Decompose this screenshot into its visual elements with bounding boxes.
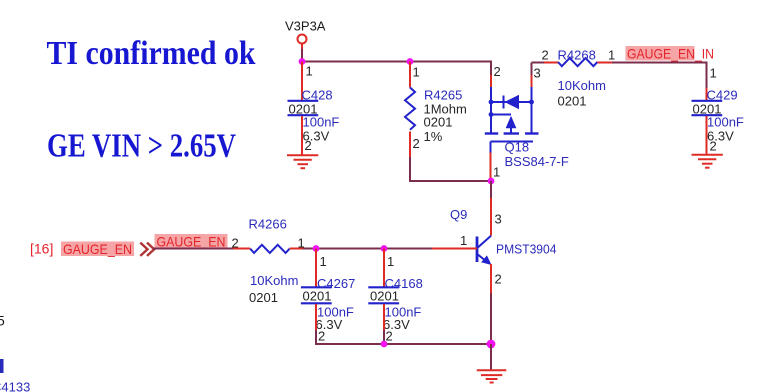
wire gate node to Q9 collector	[490, 181, 492, 200]
svg-text:C4133: C4133	[0, 380, 30, 392]
wire top rail	[302, 62, 491, 76]
node junction gate	[488, 178, 495, 185]
wire R4265 to gate node	[410, 157, 491, 181]
capacitor C429	[692, 66, 744, 155]
net label GAUGE_EN on wire	[155, 233, 228, 249]
svg-text:GAUGE_EN_IN: GAUGE_EN_IN	[627, 45, 714, 61]
node junction V3P3A	[299, 58, 306, 65]
node junction C4267 top	[313, 245, 320, 252]
svg-text:Q9: Q9	[450, 207, 467, 222]
ground under Q9	[477, 370, 507, 382]
port chevron	[140, 243, 154, 256]
wire R4268 to C429	[612, 63, 707, 89]
svg-text:1: 1	[460, 233, 467, 248]
wire GAUGE_EN to R4266	[153, 248, 233, 250]
svg-text:1: 1	[710, 66, 717, 81]
net label GAUGE_EN left	[61, 241, 134, 257]
svg-text:1: 1	[413, 65, 420, 80]
resistor R4265	[405, 62, 467, 158]
svg-text:BSS84-7-F: BSS84-7-F	[505, 154, 569, 169]
wire V3P3A stub	[301, 49, 303, 62]
svg-text:2: 2	[318, 329, 325, 344]
capacitor C4267	[301, 249, 355, 344]
svg-text:2: 2	[494, 64, 501, 79]
svg-text:GAUGE_EN: GAUGE_EN	[157, 233, 226, 249]
svg-text:Q18: Q18	[505, 140, 530, 155]
svg-text:0201: 0201	[249, 290, 278, 305]
resistor R4268	[542, 48, 616, 109]
svg-text:100nF: 100nF	[303, 115, 340, 130]
node junction emitter ground	[487, 340, 496, 349]
svg-text:GE VIN > 2.65V: GE VIN > 2.65V	[47, 128, 236, 165]
svg-text:2: 2	[710, 139, 717, 154]
capacitor C428	[288, 62, 340, 156]
svg-text:5: 5	[0, 313, 5, 329]
svg-text:V3P3A: V3P3A	[285, 19, 326, 34]
svg-text:2: 2	[232, 236, 239, 251]
svg-text:[16]: [16]	[30, 241, 53, 257]
svg-text:0201: 0201	[370, 289, 399, 304]
wire Q9 emitter down	[490, 293, 492, 344]
transistor Q9 PMST3904	[432, 198, 557, 293]
svg-text:100nF: 100nF	[707, 115, 744, 130]
svg-text:1: 1	[608, 48, 615, 63]
net label GAUGE_EN_IN	[626, 45, 715, 61]
svg-text:1%: 1%	[424, 129, 443, 144]
edge fragment blue mark	[0, 359, 4, 373]
wire ground stub	[490, 344, 492, 370]
node junction R4265 top	[407, 58, 414, 65]
wire bottom rail	[316, 330, 491, 344]
svg-text:2: 2	[305, 138, 312, 153]
svg-text:2: 2	[386, 329, 393, 344]
svg-text:1: 1	[306, 64, 313, 79]
svg-text:R4265: R4265	[424, 88, 462, 103]
node junction C4168 bottom	[381, 341, 388, 348]
resistor R4266	[232, 217, 305, 306]
svg-text:0201: 0201	[424, 115, 453, 130]
ground under C428	[287, 155, 318, 168]
svg-text:0201: 0201	[303, 289, 332, 304]
ground under C429	[692, 155, 723, 168]
svg-text:2: 2	[542, 48, 549, 63]
svg-text:1: 1	[320, 254, 327, 269]
svg-text:R4268: R4268	[558, 48, 596, 63]
svg-text:0201: 0201	[558, 94, 587, 109]
svg-text:PMST3904: PMST3904	[496, 242, 557, 257]
svg-text:TI confirmed ok: TI confirmed ok	[47, 35, 256, 72]
svg-text:10Kohm: 10Kohm	[250, 273, 298, 288]
svg-text:C428: C428	[302, 88, 333, 103]
power symbol V3P3A	[285, 19, 326, 50]
svg-text:10Kohm: 10Kohm	[558, 78, 606, 93]
svg-text:1: 1	[387, 254, 394, 269]
node junction C4168 top	[381, 245, 388, 252]
capacitor C4168	[368, 249, 423, 344]
transistor Q18 BSS84-7-F	[485, 63, 569, 180]
svg-text:3: 3	[495, 212, 502, 227]
svg-text:1: 1	[493, 165, 500, 180]
wire R4266 to base rail	[303, 248, 432, 250]
svg-text:2: 2	[413, 136, 420, 151]
svg-text:R4266: R4266	[249, 217, 287, 232]
svg-text:C429: C429	[707, 88, 738, 103]
svg-text:2: 2	[495, 272, 502, 287]
svg-text:GAUGE_EN: GAUGE_EN	[63, 241, 132, 257]
svg-text:3: 3	[534, 66, 541, 81]
wire Q18 drain to R4268	[532, 63, 545, 76]
